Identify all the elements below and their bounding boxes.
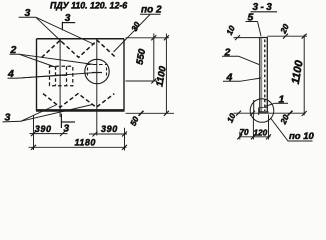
390 dim line right segment xyxy=(89,133,127,135)
label 4 plan with leaders xyxy=(7,68,96,80)
bottom left ticks 10 xyxy=(236,111,255,116)
loops pos.3 bottom zigzag (dashed) xyxy=(43,94,114,108)
section dimensions top left 10 xyxy=(234,35,260,40)
390 dim line left segment xyxy=(30,133,68,135)
leader По 2 xyxy=(114,15,151,53)
section dimensions top right 20 xyxy=(267,34,307,39)
extension line bottom xyxy=(126,112,175,114)
tick 50 bottom xyxy=(139,111,144,116)
section title 3-3 xyxy=(251,2,278,13)
detail circle at bar bottom xyxy=(250,99,274,123)
section bar outline xyxy=(260,38,268,113)
svg-text:3: 3 xyxy=(65,13,71,24)
view label По 2 xyxy=(114,4,162,52)
label 2 section with leader xyxy=(222,46,259,64)
loop pos.2 dashes in circle xyxy=(87,65,107,77)
recess bottom line xyxy=(260,107,268,109)
loop wire second leg xyxy=(258,108,260,116)
centerline left xyxy=(59,39,61,117)
label По 10 with leader xyxy=(271,118,315,142)
section bar inner face line xyxy=(261,39,263,112)
svg-text:3: 3 xyxy=(64,124,70,135)
label 3 top with leaders xyxy=(19,7,95,44)
centerline right xyxy=(96,39,98,136)
svg-text:1180: 1180 xyxy=(75,137,96,147)
dimension 1180 xyxy=(29,145,128,150)
svg-text:по 10: по 10 xyxy=(289,131,315,142)
svg-text:70: 70 xyxy=(240,128,250,137)
svg-text:120: 120 xyxy=(254,129,268,138)
plate bottom edge (thick) xyxy=(36,109,125,112)
svg-text:390: 390 xyxy=(35,124,52,134)
bottom extension row xyxy=(234,112,306,114)
section mark 3 bottom xyxy=(61,114,75,135)
rebar pos.1 dashed xyxy=(264,40,266,112)
plan right side dimensions xyxy=(126,34,175,116)
plan view plate outline xyxy=(36,39,125,111)
label 3 bottom with leaders xyxy=(3,105,93,124)
dim line 550 xyxy=(153,34,155,82)
dimensions 70 and 120 under detail xyxy=(237,115,271,140)
extension line left xyxy=(33,115,35,150)
extension line right xyxy=(124,128,126,151)
loop wire at bottom xyxy=(253,100,255,115)
section mark 3 top xyxy=(62,13,75,30)
bar bottom line xyxy=(259,111,269,113)
label 5 with leader xyxy=(246,11,262,36)
label 2 plan with leaders xyxy=(10,44,95,68)
label 4 section with leader xyxy=(223,71,261,83)
recess circle xyxy=(85,59,109,83)
dimension 390 row xyxy=(30,115,128,151)
loops pos.3 top zigzag (dashed) xyxy=(42,40,116,57)
svg-text:ПДУ 110. 120. 12-6: ПДУ 110. 120. 12-6 xyxy=(50,1,127,11)
recess rectangle (hidden, dashed) xyxy=(50,66,73,86)
label 1 with leader xyxy=(265,93,288,106)
extension line middle xyxy=(126,80,158,82)
extension line top xyxy=(126,37,170,39)
loop pos.4 centre dash in rectangle xyxy=(56,74,67,76)
paper background xyxy=(0,0,326,154)
svg-text:390: 390 xyxy=(101,124,118,134)
dim line 1100 plan xyxy=(165,34,167,114)
dimension 1100 section right xyxy=(234,34,307,116)
